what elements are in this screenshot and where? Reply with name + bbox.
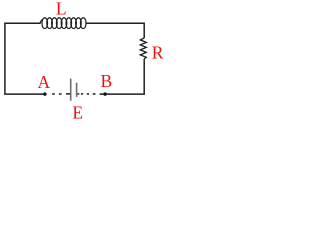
inductor L (coil) bbox=[40, 18, 86, 29]
battery E: short plate (right) bbox=[76, 83, 78, 97]
battery E: long plate (left) bbox=[70, 79, 72, 101]
node A (dot) bbox=[43, 92, 46, 95]
wire: left side and top-left segment to inductor, bottom-left to node A bbox=[5, 23, 45, 94]
svg-text:A: A bbox=[37, 72, 50, 92]
wire: top-right segment from inductor to top-right corner, down to resistor bbox=[86, 23, 144, 38]
resistor R zigzag bbox=[140, 38, 146, 59]
dashed wire from node A to battery bbox=[52, 93, 70, 95]
dashed wire from battery to node B bbox=[77, 93, 95, 95]
svg-text:B: B bbox=[101, 71, 113, 91]
svg-text:L: L bbox=[56, 0, 67, 19]
node B (dot) bbox=[103, 92, 106, 95]
wire: below resistor to bottom-right corner, left to node B bbox=[100, 59, 145, 94]
svg-text:E: E bbox=[72, 102, 83, 122]
svg-text:R: R bbox=[152, 43, 164, 63]
